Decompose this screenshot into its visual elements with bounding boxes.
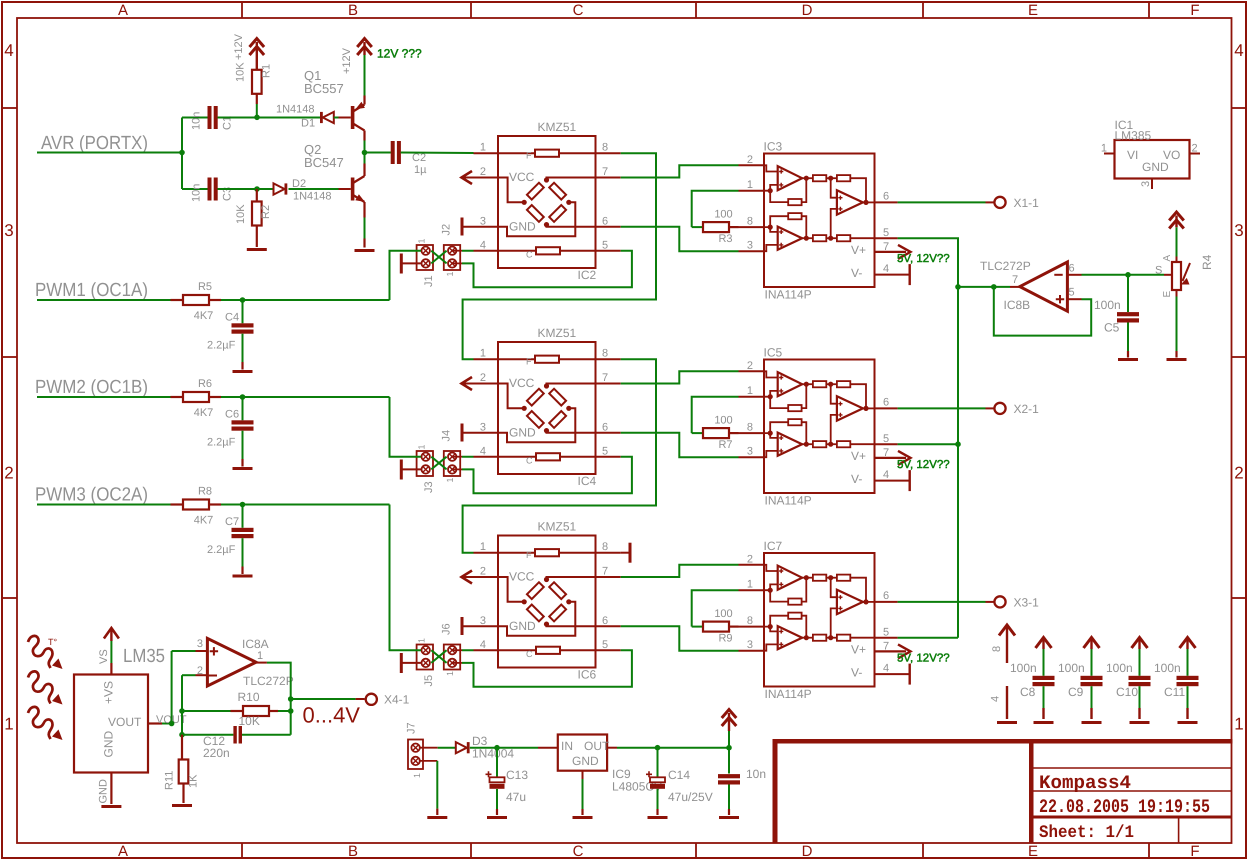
- svg-text:1N4148: 1N4148: [276, 104, 315, 116]
- wire C3 to node: [218, 188, 258, 190]
- svg-text:IN: IN: [561, 739, 573, 753]
- IC5 internal branch to op-amp C upper input: [831, 384, 837, 404]
- IC3 pin 2: [739, 164, 765, 166]
- svg-text:10K: 10K: [239, 714, 260, 728]
- IC3 internal resistor chain B to pin5: [804, 236, 809, 241]
- IC7 internal resistor chain B to pin5: [804, 635, 809, 640]
- IC6 pin 7: [596, 576, 621, 578]
- svg-text:VCC: VCC: [509, 570, 535, 584]
- svg-text:IC8B: IC8B: [1004, 298, 1031, 312]
- svg-text:6: 6: [602, 421, 608, 433]
- IC5 internal input plus marks: [779, 375, 783, 379]
- wire J6 pad1 to IC6 pin4: [452, 649, 462, 651]
- wire rail to IC8B output: [958, 286, 994, 288]
- svg-text:LM35: LM35: [123, 646, 165, 667]
- IC7 internal branch to op-amp C lower input: [831, 608, 837, 637]
- junction IC5 pin5 on rail: [955, 441, 961, 447]
- resistor R6 4K7: [171, 396, 183, 398]
- IC8B pin 5 input wire: [1067, 298, 1081, 300]
- IC4 internal VCC path: [498, 384, 524, 409]
- capacitor C5 100n: [1127, 275, 1129, 312]
- svg-text:1: 1: [480, 348, 486, 360]
- svg-text:TLC272P: TLC272P: [243, 674, 294, 688]
- connector X1-1: [994, 197, 1005, 208]
- terminal bar at IC6 pin8: [621, 552, 630, 554]
- svg-text:IC3: IC3: [764, 140, 783, 154]
- wire arrow to C10: [1139, 649, 1141, 676]
- svg-text:1: 1: [1234, 715, 1243, 734]
- IC2 internal coil C: [498, 250, 536, 252]
- wire PWM2 (OC1B) input: [37, 396, 171, 398]
- wire +12V to Q1 emitter: [364, 55, 366, 96]
- svg-text:4: 4: [480, 445, 486, 457]
- IC6 pin 3 with ground bar: [462, 625, 498, 627]
- svg-text:D: D: [802, 2, 813, 19]
- junction VOUT node: [169, 721, 175, 727]
- IC7 internal branch to op-amp C upper input: [831, 578, 837, 598]
- wire IC2 pin6 to IC3 pin3: [621, 227, 739, 251]
- svg-text:6: 6: [883, 590, 889, 602]
- svg-text:6: 6: [883, 190, 889, 202]
- wire IC3 pin1 loop to R3: [692, 191, 739, 227]
- IC2 pin 3 with ground bar: [462, 226, 498, 228]
- svg-text:A: A: [118, 2, 128, 19]
- IC3 pin 4 V- to ground bar: [875, 274, 910, 276]
- IC8 pin 4 ground stub: [1006, 686, 1008, 719]
- wire node down to C4: [242, 300, 244, 323]
- svg-text:1K: 1K: [188, 774, 200, 788]
- junction R1/C1/D1 node: [254, 115, 260, 121]
- svg-text:3: 3: [747, 446, 753, 458]
- svg-text:8: 8: [991, 646, 1003, 652]
- svg-text:6: 6: [602, 615, 608, 627]
- svg-text:VS: VS: [98, 649, 110, 664]
- IC2 pin 1: [474, 152, 499, 154]
- svg-text:4K7: 4K7: [194, 407, 214, 419]
- svg-text:J4: J4: [441, 430, 453, 442]
- svg-text:5: 5: [602, 639, 608, 651]
- svg-text:220n: 220n: [203, 746, 230, 760]
- svg-text:INA114P: INA114P: [765, 494, 812, 508]
- J7 pad1 wire to D3: [419, 747, 438, 749]
- IC3 internal resistor chain A to C output: [804, 176, 809, 181]
- IC7 internal input plus marks: [779, 569, 783, 573]
- svg-text:AVR (PORTX): AVR (PORTX): [41, 133, 148, 154]
- junction IC8B feedback node: [991, 284, 997, 290]
- svg-text:J7: J7: [406, 722, 418, 734]
- IC3 internal input stubs: [764, 165, 778, 171]
- svg-text:R4: R4: [1200, 254, 1214, 270]
- jumper J1 body: [417, 245, 433, 270]
- IC9 OUT wire: [607, 747, 617, 749]
- wire AVR (PORTX) horizontal: [37, 152, 182, 154]
- wire D2 to Q2 base: [289, 188, 339, 190]
- wire IC7 pin1 loop to R9: [692, 590, 739, 626]
- wire IC6 pin5 to J6 pad2: [462, 650, 632, 686]
- title block row line 3 thick: [1029, 816, 1232, 819]
- svg-text:INA114P: INA114P: [765, 288, 812, 302]
- jumper J4 pads: [448, 453, 456, 461]
- IC4 pin 2 with arrow: [461, 383, 498, 385]
- IC2 pin 2 with arrow: [461, 177, 498, 179]
- IC2 internal VCC path: [498, 178, 524, 203]
- svg-text:8: 8: [602, 142, 608, 154]
- wire C4 to ground: [242, 334, 244, 362]
- junction X4-1 branch: [288, 696, 294, 702]
- R4 bottom lead to ground: [1176, 290, 1178, 297]
- svg-text:2: 2: [1234, 464, 1243, 483]
- IC4 pin 3 with ground bar: [462, 432, 498, 434]
- svg-text:X4-1: X4-1: [384, 693, 410, 707]
- ground below C13: [487, 816, 507, 819]
- svg-text:5: 5: [883, 227, 889, 239]
- capacitor C6 2.2uF: [232, 420, 254, 424]
- svg-text:R7: R7: [718, 439, 732, 451]
- wire IC6 pin6 to IC7 pin3: [621, 626, 739, 650]
- svg-text:A: A: [1162, 255, 1173, 262]
- svg-text:47u/25V: 47u/25V: [668, 790, 713, 804]
- svg-text:C10: C10: [1116, 685, 1138, 699]
- svg-text:7: 7: [883, 640, 889, 652]
- svg-text:X1-1: X1-1: [1014, 196, 1040, 210]
- svg-text:2: 2: [480, 166, 486, 178]
- IC4 internal pin6 path: [547, 431, 596, 433]
- junction PWM3 (OC2A) node: [240, 502, 246, 508]
- junction Q1/Q2/C2 node: [362, 150, 368, 156]
- wire R8 to junction: [221, 504, 243, 506]
- diode D3 1N4004: [456, 742, 467, 753]
- svg-text:X3-1: X3-1: [1014, 595, 1040, 609]
- wire R6 to junction: [221, 396, 243, 398]
- svg-text:2: 2: [1192, 143, 1198, 155]
- jumper J3 pads: [422, 453, 430, 461]
- svg-text:10K: 10K: [235, 204, 247, 224]
- IC5 internal op-amp C output dot: [863, 406, 868, 411]
- junction AVR node: [179, 150, 185, 156]
- IC5 internal branch to op-amp C lower input: [831, 415, 837, 444]
- svg-text:IC8A: IC8A: [242, 637, 269, 651]
- svg-text:S: S: [1155, 265, 1162, 277]
- capacitor C11 100n: [1177, 676, 1199, 680]
- title block row line 2: [1034, 790, 1232, 792]
- capacitor C8 100n: [1033, 676, 1055, 680]
- jumper J6 body: [444, 645, 460, 670]
- svg-text:10n: 10n: [746, 767, 766, 781]
- ground below R4: [1167, 358, 1187, 361]
- svg-text:5: 5: [1069, 287, 1075, 299]
- ground below LM35: [101, 805, 121, 808]
- svg-text:7: 7: [883, 241, 889, 253]
- wire R1 bottom lead: [256, 94, 258, 104]
- frame column ticks bottom: [241, 843, 243, 858]
- IC4 pin 5: [596, 456, 621, 458]
- wire J2 pad1 to IC2 pin4: [452, 250, 462, 252]
- wire IC3 pin6 to output: [898, 201, 986, 203]
- IC1 pin 3: [1151, 179, 1153, 190]
- svg-text:1: 1: [480, 142, 486, 154]
- frame row ticks right: [1232, 107, 1247, 109]
- svg-text:1: 1: [747, 579, 753, 591]
- instrumentation amplifier IC5 INA114P body: [764, 360, 875, 494]
- ground below 10n cap: [719, 816, 739, 819]
- ground below C4: [233, 370, 253, 373]
- svg-text:47u: 47u: [506, 790, 526, 804]
- IC7 internal op-amp C output dot: [863, 599, 868, 604]
- svg-text:E: E: [1028, 2, 1038, 19]
- svg-text:PWM1 (OC1A): PWM1 (OC1A): [35, 280, 148, 301]
- IC7 pin 5: [875, 637, 898, 639]
- wire C9 to ground: [1091, 686, 1093, 708]
- connector X2-1: [994, 403, 1005, 414]
- junction IC8B output on rail: [955, 284, 961, 290]
- svg-text:IC5: IC5: [764, 346, 783, 360]
- IC4 internal bridge resistors: [527, 389, 544, 406]
- voltage reference IC1 LM385 body: [1115, 140, 1190, 179]
- IC6 bridge corner dots: [544, 577, 549, 582]
- IC6 pin 2 with arrow: [461, 576, 498, 578]
- svg-text:4: 4: [990, 696, 1002, 702]
- instrumentation amplifier IC3 INA114P body: [764, 154, 875, 288]
- wire C3 left lead: [182, 188, 208, 190]
- svg-text:1µ: 1µ: [414, 164, 427, 176]
- svg-text:100n: 100n: [1010, 661, 1037, 675]
- IC8A minus input vertical: [181, 675, 183, 735]
- svg-text:1: 1: [445, 671, 455, 676]
- IC3 internal op-amp C output dot: [863, 200, 868, 205]
- junction 10n node: [726, 745, 732, 751]
- title block small divider: [1178, 817, 1180, 843]
- ground below C7: [233, 575, 253, 578]
- svg-text:100n: 100n: [1094, 298, 1121, 312]
- svg-text:Kompass4: Kompass4: [1039, 772, 1131, 794]
- IC2 pin 6: [596, 226, 621, 228]
- svg-text:VI: VI: [1127, 148, 1138, 162]
- svg-text:4: 4: [883, 663, 889, 675]
- IC7 pin 8: [739, 626, 765, 628]
- IC7 pin 1: [739, 589, 765, 591]
- svg-text:B: B: [348, 2, 358, 19]
- svg-text:5: 5: [883, 433, 889, 445]
- svg-text:7: 7: [883, 447, 889, 459]
- svg-text:D1: D1: [301, 118, 315, 130]
- svg-text:2: 2: [747, 553, 753, 565]
- svg-text:1: 1: [480, 541, 486, 553]
- wire PWM2 node to J3 pad1: [390, 397, 422, 457]
- resistor R1: [252, 70, 262, 94]
- svg-text:PWM3 (OC2A): PWM3 (OC2A): [35, 485, 148, 506]
- op-amp IC8B TLC272P: [1020, 262, 1068, 311]
- IC3 pin 8: [739, 226, 765, 228]
- svg-text:INA114P: INA114P: [765, 687, 812, 701]
- IC6 pin 8: [596, 552, 621, 554]
- wire IC6 pin7 to IC7 pin2: [621, 565, 739, 577]
- svg-text:C: C: [526, 249, 533, 259]
- ground bar at J1 pad2: [401, 262, 421, 264]
- svg-text:2: 2: [480, 372, 486, 384]
- supply arrow above C11: [1186, 639, 1188, 649]
- wire C1 to node: [218, 117, 258, 119]
- svg-text:5V, 12V??: 5V, 12V??: [897, 653, 950, 665]
- capacitor C13 47u: [496, 748, 498, 778]
- svg-text:C7: C7: [225, 516, 239, 528]
- jumper J2 pads: [448, 247, 456, 255]
- svg-text:100: 100: [714, 209, 732, 221]
- wire C12 right: [242, 734, 291, 736]
- svg-text:4K7: 4K7: [194, 515, 214, 527]
- svg-text:BC557: BC557: [304, 81, 344, 96]
- connector J7 body: [408, 740, 423, 770]
- IC3 pin 3: [739, 250, 765, 252]
- IC2 bridge corner dots: [544, 177, 549, 182]
- svg-text:R9: R9: [718, 633, 732, 645]
- junction C12 left node: [179, 732, 185, 738]
- crossed wires between J3 and J4: [431, 457, 446, 470]
- svg-text:3: 3: [480, 215, 486, 227]
- supply arrow above R4: [1175, 216, 1177, 228]
- IC5 pin 8: [739, 432, 765, 434]
- capacitor C4 2.2uF: [232, 323, 254, 327]
- IC6 internal pin6 path: [547, 624, 596, 626]
- svg-text:C13: C13: [506, 768, 528, 782]
- supply +12V arrow above R1: [256, 42, 258, 70]
- IC5 pin 5: [875, 443, 898, 445]
- svg-text:V+: V+: [851, 642, 866, 656]
- svg-text:22.08.2005 19:19:55: 22.08.2005 19:19:55: [1039, 796, 1210, 818]
- IC4 pin 4: [474, 456, 499, 458]
- wire feedback node to op-amp: [994, 286, 1010, 288]
- wire node to D1: [257, 117, 320, 119]
- svg-text:J2: J2: [441, 224, 453, 236]
- IC7 internal resistor chain A to C output: [804, 575, 809, 580]
- svg-text:1: 1: [747, 179, 753, 191]
- wire PWM1 (OC1A) input: [37, 299, 171, 301]
- IC4 internal GND path: [498, 408, 575, 442]
- svg-text:10n: 10n: [191, 184, 203, 202]
- IC5 internal resistor chain A to C output: [804, 382, 809, 387]
- capacitor C3: [208, 178, 212, 201]
- wire arrow to C9: [1091, 649, 1093, 676]
- supply arrow above C8: [1042, 639, 1044, 649]
- regulator IC9 L4805CV body: [558, 735, 607, 771]
- IC6 internal compensation coil F: [498, 552, 535, 554]
- wire C14 node to 10n node: [658, 747, 730, 749]
- svg-text:0...4V: 0...4V: [303, 703, 361, 728]
- IC7 pin 4 V- to ground bar: [875, 673, 910, 675]
- svg-text:V-: V-: [851, 472, 862, 486]
- svg-text:8: 8: [747, 615, 753, 627]
- magnetoresistive sensor IC2 KMZ51 body: [498, 136, 596, 268]
- capacitor C14 47u/25V: [657, 748, 659, 778]
- wire arrow to C8: [1043, 649, 1045, 676]
- svg-text:J6: J6: [441, 623, 453, 635]
- crossed wires between J1 and J2: [431, 251, 446, 264]
- IC2 pin 5: [596, 250, 621, 252]
- junction minus input node: [1125, 272, 1131, 278]
- junction PWM2 (OC1B) node: [240, 394, 246, 400]
- svg-text:C: C: [526, 455, 533, 465]
- svg-text:OUT: OUT: [584, 739, 610, 753]
- svg-text:TLC272P: TLC272P: [980, 259, 1031, 273]
- ground below J7: [427, 816, 447, 819]
- IC5 internal op-amp A: [778, 372, 802, 396]
- svg-text:T°: T°: [48, 637, 57, 647]
- svg-text:2.2µF: 2.2µF: [207, 544, 236, 556]
- junction PWM1 (OC1A) node: [240, 297, 246, 303]
- heat waves arrows: [28, 636, 63, 669]
- diode D2 1N4148: [274, 183, 285, 194]
- svg-text:10n: 10n: [191, 112, 203, 130]
- LM35 GND pin to ground: [110, 773, 112, 805]
- wire node to IC9 IN: [497, 747, 538, 749]
- junction C14 node: [655, 745, 661, 751]
- wire IC2 pin8 coil chain to IC4 pin1: [463, 153, 656, 359]
- potentiometer R4 body: [1172, 262, 1181, 290]
- svg-text:2.2µF: 2.2µF: [207, 340, 236, 352]
- IC8B feedback loop wire: [994, 287, 1091, 336]
- IC5 internal input stubs: [764, 371, 778, 377]
- svg-text:3: 3: [4, 221, 13, 240]
- wire IC5 pin6 to output: [898, 407, 986, 409]
- frame column ticks top: [241, 2, 243, 18]
- svg-text:E: E: [1162, 291, 1173, 298]
- IC7 internal op-amp A: [778, 566, 802, 590]
- svg-text:3: 3: [197, 638, 203, 650]
- svg-text:GND: GND: [509, 219, 536, 233]
- IC2 internal pin7 path: [547, 178, 596, 181]
- supply +12V arrow above Q1: [363, 42, 365, 55]
- ground below C8: [1034, 721, 1054, 724]
- svg-text:R11: R11: [164, 771, 176, 790]
- wire node down to C7: [242, 505, 244, 528]
- svg-text:1: 1: [4, 715, 13, 734]
- svg-text:F: F: [526, 550, 532, 560]
- svg-text:C: C: [526, 649, 533, 659]
- jumper J2 body: [444, 245, 460, 270]
- svg-text:1: 1: [417, 444, 427, 449]
- svg-text:C9: C9: [1068, 685, 1084, 699]
- IC3 internal op-amp C: [837, 190, 863, 214]
- IC5 pin 6 output: [875, 407, 898, 409]
- wire D3 to IN node: [470, 747, 497, 749]
- svg-text:8: 8: [747, 422, 753, 434]
- IC4 internal coil C: [498, 456, 536, 458]
- svg-text:3: 3: [747, 639, 753, 651]
- svg-text:8: 8: [602, 541, 608, 553]
- connector X3-1: [994, 596, 1005, 607]
- svg-text:1: 1: [417, 238, 427, 243]
- svg-text:3: 3: [1140, 181, 1152, 187]
- svg-text:IC7: IC7: [764, 539, 783, 553]
- wire IC4 pin5 to J4 pad2: [462, 457, 632, 493]
- IC7 internal op-amp C: [837, 590, 863, 614]
- svg-text:8: 8: [747, 216, 753, 228]
- svg-text:GND: GND: [572, 754, 599, 768]
- ground below C11: [1178, 721, 1198, 724]
- svg-text:A: A: [118, 843, 128, 860]
- svg-text:F: F: [1190, 2, 1199, 19]
- IC3 pin 7 V+ supply arrow: [875, 251, 907, 253]
- IC5 internal op-amp C: [837, 396, 863, 420]
- IC7 pin 3: [739, 650, 765, 652]
- wire IC3 pin5 to reference rail: [898, 238, 958, 287]
- IC6 internal coil C: [498, 649, 536, 651]
- IC8A output wire: [256, 662, 267, 664]
- svg-text:R8: R8: [198, 486, 212, 498]
- svg-text:2: 2: [197, 665, 203, 677]
- IC7 internal feedback resistor A: [770, 590, 788, 601]
- transistor Q1 BC557: [351, 106, 355, 129]
- svg-text:4: 4: [4, 41, 13, 60]
